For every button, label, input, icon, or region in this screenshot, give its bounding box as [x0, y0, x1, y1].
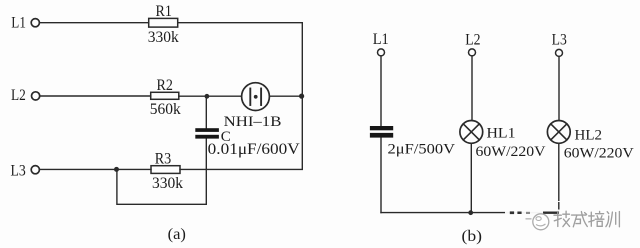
svg-text:(b): (b) — [462, 228, 483, 245]
svg-text:(a): (a) — [168, 226, 186, 243]
svg-text:HL2: HL2 — [575, 128, 603, 144]
svg-text:L2: L2 — [11, 87, 26, 104]
svg-text:L2: L2 — [465, 32, 480, 49]
svg-text:L1: L1 — [373, 31, 389, 48]
svg-text:NHI–1B: NHI–1B — [224, 114, 282, 130]
svg-text:60W/220V: 60W/220V — [476, 144, 546, 160]
svg-text:R1: R1 — [156, 3, 172, 20]
svg-text:330k: 330k — [148, 29, 179, 46]
svg-text:0.01μF/600V: 0.01μF/600V — [208, 141, 301, 158]
svg-text:L1: L1 — [11, 14, 26, 31]
svg-text:L3: L3 — [11, 163, 27, 180]
svg-text:R2: R2 — [157, 77, 173, 94]
svg-text:560k: 560k — [150, 101, 181, 118]
svg-text:60W/220V: 60W/220V — [564, 146, 634, 162]
svg-text:R3: R3 — [155, 150, 172, 167]
svg-text:330k: 330k — [152, 175, 183, 192]
svg-text:L3: L3 — [552, 32, 567, 49]
svg-text:2μF/500V: 2μF/500V — [388, 142, 456, 158]
svg-text:HL1: HL1 — [487, 126, 516, 142]
